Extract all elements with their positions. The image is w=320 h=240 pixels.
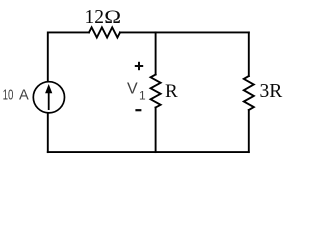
svg-text:12: 12 — [85, 7, 105, 28]
svg-text:V1: V1 — [127, 80, 146, 102]
svg-text:R: R — [165, 81, 178, 102]
wire middle branch bottom — [155, 108, 157, 153]
current source I1 circle — [33, 82, 64, 113]
current source arrow — [45, 84, 52, 110]
svg-text:10: 10 — [3, 86, 14, 103]
resistor R (middle) — [151, 75, 161, 108]
wire top-left (left riser to top rail) — [48, 32, 89, 81]
wire bottom rail — [48, 151, 249, 153]
svg-text:3R: 3R — [260, 81, 283, 102]
wire top rail right of resistor — [120, 31, 249, 33]
wire right branch top — [248, 32, 250, 76]
wire middle branch top — [155, 32, 157, 74]
resistor 3R (right) — [244, 76, 254, 110]
wire left riser below source — [47, 114, 49, 153]
svg-text:A: A — [19, 87, 29, 103]
resistor R1 12ohm — [89, 27, 120, 37]
wire right branch bottom — [248, 110, 250, 152]
minus sign — [135, 109, 141, 111]
plus sign — [135, 62, 143, 70]
svg-text:Ω: Ω — [104, 5, 121, 27]
